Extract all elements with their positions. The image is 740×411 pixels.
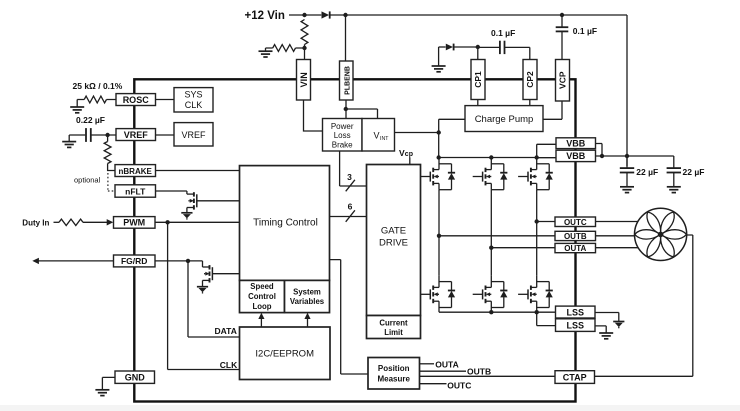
- pin box OUTB: [555, 231, 596, 240]
- svg-text:OUTB: OUTB: [564, 232, 587, 241]
- node CP1: [476, 45, 480, 49]
- svg-text:nFLT: nFLT: [125, 186, 146, 196]
- pin box LSS (top): [556, 306, 596, 318]
- wire FG/RD output arrow: [39, 260, 114, 262]
- ground (R2): [259, 51, 273, 57]
- wire arrow I2C to Speed Control Loop: [260, 318, 262, 328]
- wire OUTC sense stub: [420, 383, 447, 385]
- svg-text:OUTA: OUTA: [564, 244, 586, 253]
- wire LSS1 to ground: [595, 313, 619, 322]
- svg-text:22 µF: 22 µF: [636, 167, 658, 177]
- ground (C5): [62, 142, 76, 148]
- bus 3-wide Power Loss Brake to Gate Drive: [340, 151, 367, 186]
- wire nBRAKE to Timing Control: [156, 170, 240, 172]
- node VREF/nBRAKE divider: [105, 133, 109, 137]
- node rail B: [489, 155, 493, 159]
- wire motor center tap to CTAP: [595, 235, 693, 376]
- svg-text:Current: Current: [379, 318, 408, 327]
- svg-text:nBRAKE: nBRAKE: [119, 167, 153, 176]
- block Gate Drive: [367, 165, 421, 316]
- svg-text:25 kΩ / 0.1%: 25 kΩ / 0.1%: [73, 81, 123, 91]
- wire VINT to bridge supply node: [395, 119, 466, 157]
- block Current Limit: [367, 316, 421, 339]
- svg-text:Position: Position: [378, 364, 410, 373]
- node: +12V / resistor junction: [302, 13, 306, 17]
- node rail D: [489, 310, 493, 314]
- block VINT regulator: [362, 119, 395, 152]
- svg-text:OUTA: OUTA: [435, 360, 458, 370]
- wire phase column C: [536, 190, 538, 276]
- node PWM/CLK: [165, 220, 169, 224]
- wire OUTC phase tap: [537, 221, 555, 223]
- wire PLBENB pin: [346, 15, 378, 119]
- ground (GND pin): [95, 390, 109, 396]
- wire CTAP to Position Measure: [420, 375, 556, 377]
- resistor R1 (vertical, from +12V): [301, 20, 308, 45]
- wire CLK riser: [168, 222, 240, 369]
- transistor Q3 (high-side phase C) with body diode: [518, 158, 553, 190]
- wire phase column A: [490, 190, 492, 276]
- svg-text:Variables: Variables: [290, 297, 325, 306]
- svg-text:VBB: VBB: [566, 151, 586, 161]
- node: VCP bypass cap tap: [560, 13, 564, 17]
- svg-text:0.1 µF: 0.1 µF: [573, 26, 597, 36]
- wire Vcp stub: [409, 158, 411, 165]
- node: R1 / R2 junction: [302, 46, 306, 50]
- block System Variables: [285, 280, 330, 312]
- svg-text:CP1: CP1: [473, 71, 483, 88]
- svg-text:Duty In: Duty In: [22, 218, 49, 227]
- pin box CTAP: [555, 371, 595, 384]
- wire CP2 bottom stub: [529, 100, 531, 106]
- wire OUTB sense stub: [420, 370, 467, 372]
- block I2C/EEPROM: [240, 327, 331, 380]
- svg-text:INT: INT: [380, 136, 389, 142]
- svg-text:Loss: Loss: [334, 131, 351, 140]
- capacitor C5 0.22uF: [69, 134, 85, 136]
- pin box VBB (bottom): [556, 150, 596, 161]
- svg-text:VREF: VREF: [124, 130, 149, 140]
- pin box FG/RD: [114, 255, 156, 267]
- svg-text:3: 3: [347, 172, 352, 182]
- svg-text:LSS: LSS: [567, 321, 585, 331]
- wire nFLT to Q7: [156, 190, 187, 192]
- pin box CP1: [471, 60, 485, 100]
- pin box PLBENB: [340, 61, 354, 100]
- svg-text:Speed: Speed: [250, 282, 274, 291]
- wire Timing Control to Position Measure: [330, 260, 369, 374]
- svg-text:GATE: GATE: [381, 225, 406, 236]
- optional dotted link: [108, 173, 115, 191]
- pin box VBB (top): [556, 138, 596, 149]
- pin box OUTA: [555, 243, 596, 252]
- wire FG/RD to Q8: [155, 260, 203, 262]
- pin box CP2: [523, 60, 537, 100]
- svg-text:SYS: SYS: [184, 89, 202, 99]
- node 22uF tap: [625, 154, 629, 158]
- pin box OUTC: [555, 217, 596, 227]
- svg-text:OUTC: OUTC: [447, 381, 471, 391]
- svg-text:FG/RD: FG/RD: [121, 256, 147, 266]
- svg-text:CP2: CP2: [525, 71, 535, 88]
- block SYS CLK: [174, 88, 213, 112]
- wire VBB feed: [596, 144, 674, 169]
- block Power Loss Brake: [323, 119, 363, 152]
- resistor R3 25k (ROSC): [84, 96, 106, 103]
- pin box VCP: [556, 60, 570, 102]
- resistor R2 (horizontal to ground): [273, 45, 296, 52]
- svg-text:System: System: [293, 287, 321, 296]
- node FG-RD/DATA: [186, 259, 190, 263]
- wire low-side source rail: [439, 312, 556, 325]
- diode D2 (charge pump): [439, 46, 446, 48]
- svg-text:ROSC: ROSC: [123, 95, 150, 105]
- capacitor C2 0.1uF (VCP reservoir): [561, 15, 563, 27]
- block Position Measure: [368, 358, 420, 390]
- capacitor C3 22uF: [626, 156, 628, 168]
- wire OUTB to motor: [596, 235, 636, 237]
- ground (ROSC): [70, 107, 84, 113]
- ground (Q8, dart): [197, 287, 208, 294]
- block VREF regulator: [174, 123, 213, 146]
- wire VIN to Power Loss Brake: [304, 100, 323, 131]
- diode D1 (reverse protection): [322, 11, 330, 18]
- wire OUTC to motor: [596, 221, 640, 223]
- svg-text:Timing Control: Timing Control: [253, 218, 318, 229]
- svg-text:PLBENB: PLBENB: [344, 66, 351, 95]
- pin box PWM: [114, 217, 156, 229]
- node rail A: [437, 155, 441, 159]
- resistor R4 (nBRAKE pullup): [107, 135, 109, 142]
- wire phase column B: [438, 190, 440, 276]
- wire DATA riser: [188, 261, 240, 337]
- wire arrow I2C to System Variables: [307, 318, 309, 328]
- svg-text:VBB: VBB: [566, 138, 586, 148]
- transistor Q7 (nFLT open-drain): [187, 191, 240, 214]
- wire VREF to VREF block: [156, 134, 175, 136]
- ground (LSS1, dart): [613, 322, 624, 329]
- svg-text:I2C/EEPROM: I2C/EEPROM: [255, 348, 314, 359]
- svg-text:Power: Power: [331, 122, 354, 131]
- wire PWM to Timing Control: [155, 221, 240, 223]
- block Timing Control: [240, 166, 330, 281]
- svg-text:VREF: VREF: [181, 130, 206, 140]
- pin box GND: [115, 371, 155, 383]
- svg-text:CLK: CLK: [185, 100, 203, 110]
- svg-text:Loop: Loop: [252, 302, 271, 311]
- pin box nFLT: [115, 185, 156, 197]
- resistor R5 (Duty In): [54, 221, 60, 223]
- wire +12V input rail: [289, 15, 627, 166]
- svg-text:cp: cp: [405, 151, 413, 158]
- node VBB junction: [600, 154, 604, 158]
- svg-text:6: 6: [348, 201, 353, 211]
- node: PLBENB / VINT branch: [344, 107, 348, 111]
- svg-text:LSS: LSS: [567, 307, 585, 317]
- capacitor C4 22uF: [667, 168, 681, 172]
- block Speed Control Loop: [240, 280, 285, 312]
- svg-text:VIN: VIN: [299, 72, 309, 87]
- svg-text:CTAP: CTAP: [563, 373, 587, 383]
- wire CP1 pump node: [477, 47, 479, 106]
- wire OUTB phase tap: [439, 235, 555, 237]
- svg-text:OUTC: OUTC: [564, 218, 587, 227]
- block Charge Pump: [465, 106, 543, 132]
- wire LSS2 to ground: [595, 326, 606, 333]
- wire OUTA to motor: [596, 247, 640, 249]
- wire OUTA phase tap: [491, 247, 555, 249]
- svg-text:optional: optional: [74, 176, 101, 185]
- node rail C: [535, 155, 539, 159]
- wire GND pin to ground: [102, 377, 115, 389]
- svg-text:DATA: DATA: [215, 326, 237, 336]
- node rail E: [535, 310, 539, 314]
- transistor Q1 (high-side phase B) with body diode: [420, 158, 455, 190]
- arrowhead into PWM: [107, 219, 114, 225]
- svg-text:22 µF: 22 µF: [683, 167, 705, 177]
- wire VCP to charge pump: [543, 101, 562, 119]
- svg-text:Limit: Limit: [384, 328, 403, 337]
- transistor Q6 (low-side phase C) with body diode: [518, 275, 553, 312]
- svg-text:Charge Pump: Charge Pump: [475, 114, 534, 125]
- ground (Q7, dart): [181, 213, 192, 220]
- svg-text:CLK: CLK: [220, 360, 238, 370]
- svg-text:PWM: PWM: [123, 218, 145, 228]
- svg-text:Brake: Brake: [332, 140, 353, 149]
- node: VINT / charge pump: [437, 130, 441, 134]
- transistor Q5 (low-side phase A) with body diode: [473, 275, 508, 312]
- pin box VREF: [116, 129, 156, 141]
- pin box VIN: [297, 60, 311, 101]
- ground (D2 anode): [438, 47, 440, 66]
- svg-text:V: V: [374, 130, 380, 140]
- transistor Q2 (high-side phase A) with body diode: [473, 158, 508, 190]
- svg-text:Measure: Measure: [377, 374, 410, 383]
- svg-text:GND: GND: [125, 372, 146, 382]
- svg-text:+12 Vin: +12 Vin: [245, 10, 285, 22]
- svg-text:DRIVE: DRIVE: [379, 237, 408, 248]
- svg-text:OUTB: OUTB: [467, 367, 491, 377]
- capacitor C1 0.1uF (pump cap): [478, 46, 500, 48]
- wire high-side drain rail: [439, 144, 556, 157]
- bus 6-wide Timing to Gate Drive: [330, 216, 367, 218]
- svg-text:0.1 µF: 0.1 µF: [491, 28, 515, 38]
- pin box ROSC: [116, 94, 156, 106]
- svg-text:0.22 µF: 0.22 µF: [76, 115, 105, 125]
- wire OUTA sense stub: [420, 363, 435, 365]
- node: diode cathode / PLBENB: [343, 13, 347, 17]
- transistor Q4 (low-side phase B) with body diode: [420, 275, 455, 312]
- motor M1 (BLDC): [635, 208, 687, 260]
- svg-text:Control: Control: [248, 292, 276, 301]
- ground (LSS2): [599, 333, 613, 339]
- transistor Q8 (FG/RD open-drain): [203, 261, 240, 287]
- pin box LSS (bottom): [556, 319, 596, 332]
- pin box nBRAKE: [115, 165, 156, 177]
- svg-text:VCP: VCP: [558, 71, 568, 89]
- chip outline (main IC boundary): [134, 79, 575, 401]
- wire ROSC to SYS CLK: [156, 99, 175, 101]
